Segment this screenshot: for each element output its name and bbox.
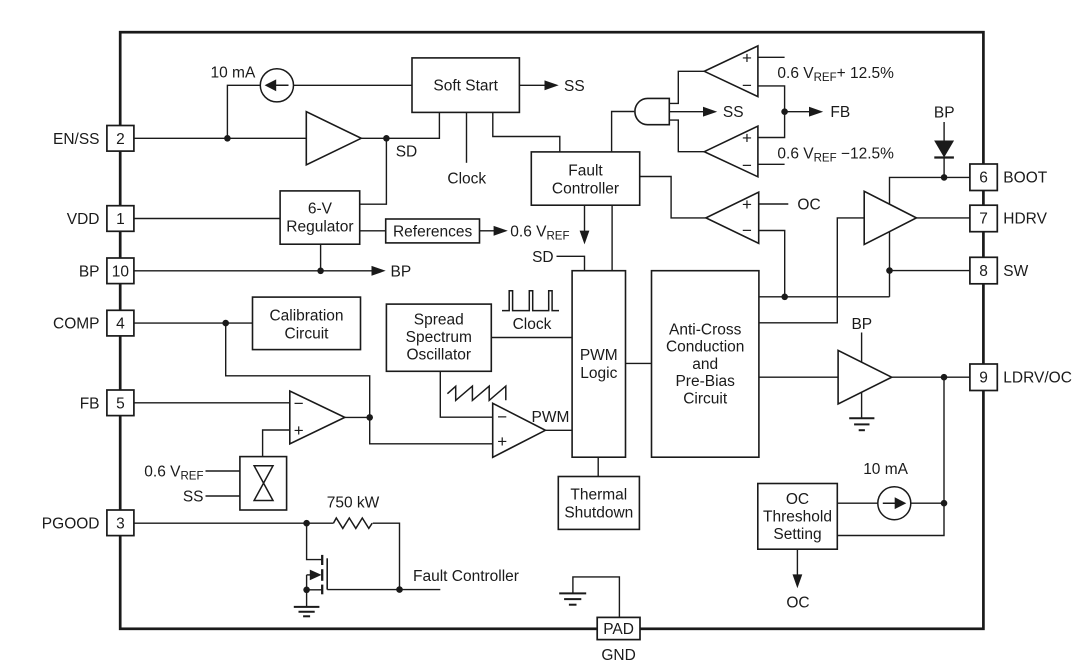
pin 7 HDRV	[970, 205, 997, 232]
wire Anti-Cross to HDRV driver input	[759, 218, 864, 323]
error amplifier U3	[290, 391, 345, 444]
svg-text:+: +	[294, 421, 304, 440]
svg-text:BP: BP	[851, 316, 872, 333]
wire OC comparator plus stub	[759, 203, 789, 205]
svg-text:Clock: Clock	[447, 170, 486, 187]
block Spread Spectrum Oscillator	[386, 304, 491, 371]
wire MOSFET source to ground	[307, 575, 323, 607]
diode D1	[935, 141, 953, 157]
svg-text:Calibration: Calibration	[269, 307, 343, 324]
block Soft Start	[412, 58, 519, 113]
wire FB arrow	[785, 111, 810, 113]
svg-text:SS: SS	[564, 78, 585, 95]
svg-text:10 mA: 10 mA	[863, 461, 908, 478]
wire PGOOD to MOSFET drain	[307, 523, 323, 559]
sawtooth waveform glyph	[447, 386, 505, 400]
wire PGOOD pin to resistor	[134, 522, 333, 524]
node junction on EN/SS line	[224, 135, 231, 142]
svg-text:SS: SS	[183, 488, 204, 505]
svg-text:+: +	[497, 432, 507, 451]
wire COMP to error amp output node	[226, 323, 493, 444]
window comparator U6 upper	[704, 46, 758, 97]
block Anti-Cross Conduction and Pre-Bias Circuit	[652, 271, 759, 458]
wire BP pin line with arrow	[135, 270, 373, 272]
svg-text:−: −	[294, 394, 304, 413]
wire EN/SS pin to buffer input	[134, 137, 306, 139]
svg-text:Soft Start: Soft Start	[433, 78, 498, 95]
wire SS to selector	[206, 495, 240, 497]
svg-text:Fault Controller: Fault Controller	[413, 568, 519, 585]
svg-text:Threshold: Threshold	[763, 508, 832, 525]
svg-text:SW: SW	[1003, 263, 1028, 280]
pin PAD	[597, 617, 640, 639]
svg-text:2: 2	[116, 131, 125, 148]
svg-text:+: +	[742, 48, 752, 67]
svg-text:PGOOD: PGOOD	[42, 515, 100, 532]
wire HDRV driver return to SW	[889, 232, 891, 297]
wire diode cathode to BOOT line	[943, 158, 945, 178]
node FB junction	[781, 108, 788, 115]
block Thermal Shutdown	[558, 477, 639, 530]
svg-text:8: 8	[979, 263, 988, 280]
svg-text:SS: SS	[723, 104, 744, 121]
wire HDRV driver output to pin	[916, 217, 970, 219]
svg-text:GND: GND	[601, 647, 635, 664]
wire AND gate bottom input to window comparator	[669, 120, 704, 152]
svg-text:Controller: Controller	[552, 181, 619, 198]
block References	[386, 219, 480, 243]
svg-text:1: 1	[116, 211, 125, 228]
svg-text:VDD: VDD	[67, 211, 100, 228]
pin 9 LDRV/OC	[970, 364, 997, 391]
node error amp output junction	[366, 414, 373, 421]
svg-text:3: 3	[116, 515, 125, 532]
svg-text:+: +	[742, 195, 752, 214]
svg-text:SD: SD	[396, 144, 418, 161]
node COMP junction	[222, 320, 229, 327]
node SD junction	[383, 135, 390, 142]
svg-text:OC: OC	[797, 197, 820, 214]
node OC source junction	[941, 500, 948, 507]
svg-text:and: and	[692, 356, 718, 373]
svg-text:10: 10	[112, 263, 130, 280]
wire MOSFET gate to fault controller net	[327, 589, 440, 591]
svg-text:Fault: Fault	[568, 163, 603, 180]
svg-text:FB: FB	[830, 104, 850, 121]
svg-text:Pre-Bias: Pre-Bias	[675, 373, 735, 390]
OC comparator U8	[706, 192, 759, 243]
pin 3 PGOOD	[107, 510, 134, 536]
wire Anti-Cross to SW sense	[759, 296, 890, 298]
wire pad ground to PAD	[573, 577, 620, 618]
wire upper comparator plus stub	[758, 56, 785, 58]
wire regulator to References	[360, 230, 386, 232]
chip outline border	[120, 32, 983, 629]
transistor Q1 body arrow	[307, 574, 311, 576]
svg-text:SD: SD	[532, 249, 554, 266]
pin 5 FB	[107, 390, 134, 416]
svg-text:PAD: PAD	[603, 621, 634, 638]
wire oscillator ramp output to PWM comparator	[440, 371, 492, 417]
svg-text:FB: FB	[80, 395, 100, 412]
HDRV driver U9	[864, 191, 916, 244]
svg-text:−: −	[742, 76, 752, 95]
wire BOOT pin to HDRV driver supply	[890, 177, 970, 204]
svg-text:10 mA: 10 mA	[211, 65, 256, 82]
svg-text:Setting: Setting	[773, 526, 821, 543]
svg-text:−: −	[497, 407, 507, 426]
wire PWM comparator output to PWM Logic	[545, 429, 572, 431]
wire AND gate SS arrow	[669, 111, 704, 113]
svg-text:750 kW: 750 kW	[327, 494, 380, 511]
wire 0.6 VREF to selector	[206, 470, 240, 472]
svg-text:6: 6	[979, 170, 988, 187]
wire FB pin to error amp	[134, 402, 290, 404]
node source junction	[303, 587, 310, 594]
svg-text:Clock: Clock	[513, 316, 552, 333]
svg-text:BP: BP	[391, 263, 412, 280]
wire LDRV driver output to pin	[892, 376, 970, 378]
wire VDD pin to regulator	[134, 218, 280, 220]
wire SW pin line	[890, 270, 970, 272]
wire current source to LDRV/OC net	[911, 502, 944, 504]
svg-text:OC: OC	[786, 491, 809, 508]
svg-text:+: +	[742, 129, 752, 148]
node SW junction	[886, 267, 893, 274]
svg-text:Spectrum: Spectrum	[406, 329, 472, 346]
ground (PGOOD MOSFET)	[294, 607, 320, 616]
pin 1 VDD	[107, 206, 134, 232]
wire Anti-Cross to LDRV driver input	[759, 376, 838, 378]
wire OC comparator minus to SW sense line	[759, 231, 785, 297]
wire Soft Start clock stub	[466, 112, 468, 162]
wire error amp plus input to selector	[263, 430, 290, 457]
wire lower comparator minus stub	[758, 163, 785, 165]
wire AND gate output to Fault Controller	[612, 112, 635, 152]
block PWM Logic	[572, 271, 625, 458]
pin 10 BP	[107, 258, 134, 284]
resistor R1 750 kW	[333, 518, 372, 528]
svg-text:References: References	[393, 223, 473, 240]
node BP junction	[317, 268, 324, 275]
wire AND gate top input to window comparator	[669, 71, 704, 103]
current source I1 (10 mA)	[260, 69, 293, 102]
svg-text:0.6 VREF: 0.6 VREF	[144, 463, 203, 482]
svg-text:7: 7	[979, 210, 988, 227]
wire BP to LDRV driver	[861, 333, 863, 363]
node LDRV/OC junction	[941, 374, 948, 381]
node OC sense junction	[781, 294, 788, 301]
wire regulator BP stub	[320, 244, 322, 271]
block 6-V Regulator	[280, 191, 360, 244]
block Fault Controller	[531, 152, 639, 205]
wire OC threshold output arrow	[796, 549, 798, 575]
wire PWM Logic to Anti-Cross block	[626, 362, 652, 364]
svg-text:−: −	[742, 221, 752, 240]
wire error amp output	[345, 416, 370, 418]
svg-text:BOOT: BOOT	[1003, 170, 1047, 187]
svg-text:Circuit: Circuit	[285, 325, 330, 342]
wire oscillator clock output to PWM Logic	[491, 337, 572, 339]
svg-text:Logic: Logic	[580, 365, 617, 382]
wire buffer output SD node	[361, 112, 439, 138]
block OC Threshold Setting	[758, 484, 838, 550]
clock waveform glyph	[502, 291, 559, 311]
svg-text:OC: OC	[786, 594, 809, 611]
wire resistor to MOSFET gate net	[373, 523, 400, 589]
ground (LDRV driver)	[849, 418, 874, 430]
pin 4 COMP	[107, 310, 134, 336]
wire Soft Start SS output arrow	[519, 84, 545, 86]
pin 2 EN/SS	[107, 126, 134, 152]
wire BP to diode anode	[943, 122, 945, 141]
wire upper comparator minus to FB node	[758, 86, 785, 138]
wire Fault Controller to OC comparator	[640, 177, 706, 218]
wire LDRV driver ground stem	[861, 392, 863, 418]
transistor Q1 channel	[321, 555, 323, 594]
svg-text:BP: BP	[934, 104, 955, 121]
node PGOOD junction	[303, 520, 310, 527]
svg-text:Conduction: Conduction	[666, 339, 744, 356]
svg-text:PWM: PWM	[580, 347, 618, 364]
window comparator U7 lower	[704, 126, 758, 177]
svg-text:HDRV: HDRV	[1003, 210, 1047, 227]
node BOOT junction	[941, 174, 948, 181]
ground (power pad)	[559, 593, 586, 604]
svg-text:Regulator: Regulator	[286, 218, 353, 235]
hourglass symbol inside selector	[254, 466, 273, 501]
svg-text:Oscillator: Oscillator	[406, 346, 471, 363]
svg-text:LDRV/OC: LDRV/OC	[1003, 370, 1072, 387]
AND gate U5	[635, 98, 669, 124]
svg-text:0.6 VREF −12.5%: 0.6 VREF −12.5%	[777, 145, 894, 164]
wire OC threshold to current source	[837, 502, 878, 504]
pin 6 BOOT	[970, 164, 997, 191]
svg-text:Anti-Cross: Anti-Cross	[669, 321, 742, 338]
svg-text:Circuit: Circuit	[683, 391, 728, 408]
wire current source to Soft Start	[294, 84, 413, 86]
buffer U2 EN comparator	[306, 112, 361, 165]
reference selector box	[240, 457, 287, 510]
wire Soft Start to Fault Controller	[493, 112, 560, 151]
svg-text:EN/SS: EN/SS	[53, 131, 100, 148]
svg-text:COMP: COMP	[53, 316, 100, 333]
wire SD to 6-V regulator	[360, 138, 387, 204]
wire Fault Controller shutdown arrow	[584, 205, 586, 231]
svg-text:PWM: PWM	[532, 409, 570, 426]
wire References 0.6 VREF arrow	[480, 230, 495, 232]
PWM comparator U4	[493, 403, 546, 457]
svg-text:BP: BP	[79, 263, 100, 280]
svg-text:5: 5	[116, 395, 125, 412]
svg-text:0.6 VREF+ 12.5%: 0.6 VREF+ 12.5%	[777, 65, 894, 84]
pin 8 SW	[970, 257, 997, 284]
wire Fault Controller to PWM Logic	[611, 205, 613, 271]
wire SD dash into PWM Logic	[557, 256, 585, 270]
wire PWM Logic to Thermal Shutdown	[597, 457, 599, 476]
wire COMP pin to Calibration Circuit	[134, 322, 253, 324]
block Calibration Circuit	[253, 297, 361, 350]
current source I2 (10 mA)	[878, 487, 911, 520]
svg-text:6-V: 6-V	[308, 200, 333, 217]
svg-text:Spread: Spread	[414, 312, 464, 329]
wire LDRV/OC to OC threshold sense	[837, 377, 944, 535]
node gate junction	[396, 586, 403, 593]
svg-text:0.6 VREF: 0.6 VREF	[510, 223, 569, 242]
svg-text:4: 4	[116, 316, 125, 333]
svg-text:Shutdown: Shutdown	[564, 504, 633, 521]
LDRV driver U10	[838, 350, 892, 404]
svg-text:Thermal: Thermal	[570, 486, 627, 503]
transistor Q1 gate bar	[326, 558, 328, 589]
wire current-source branch up from EN/SS node	[227, 85, 260, 138]
svg-text:9: 9	[979, 370, 988, 387]
svg-text:−: −	[742, 156, 752, 175]
